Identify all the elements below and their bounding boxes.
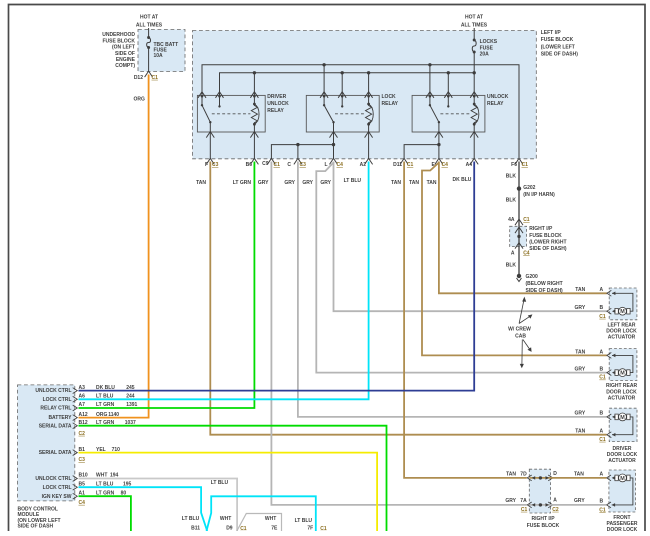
terminal B <box>607 502 611 508</box>
svg-text:UNLOCK: UNLOCK <box>487 94 509 100</box>
svg-text:GRY: GRY <box>284 180 295 186</box>
svg-text:BLK: BLK <box>506 263 517 269</box>
mechanical link dashed <box>335 113 365 115</box>
wire YEL B1 serial data <box>79 453 378 531</box>
junction bus1 / lock relay T1 <box>322 63 325 66</box>
svg-text:C4: C4 <box>442 162 449 168</box>
wire bus1 drop to lock relay T1 <box>323 65 325 96</box>
svg-text:F6: F6 <box>511 162 517 168</box>
terminal B <box>607 432 611 438</box>
svg-text:(LOWER LEFT: (LOWER LEFT <box>541 44 575 50</box>
svg-text:LOCKS: LOCKS <box>480 39 498 45</box>
svg-text:TAN: TAN <box>409 180 419 186</box>
svg-text:CAB: CAB <box>515 333 526 339</box>
relay coil winding <box>253 96 255 104</box>
junction GRY <box>539 503 542 506</box>
wire hot feed into underhood fuse block <box>148 28 150 38</box>
svg-text:C1: C1 <box>320 526 327 531</box>
svg-text:C2: C2 <box>552 507 559 513</box>
junction bus1 / unlock relay T1 <box>428 63 431 66</box>
svg-text:SIDE OF DASH): SIDE OF DASH) <box>529 246 567 252</box>
wire fuse output to bus2 junction and unlock relay coil <box>473 52 475 95</box>
wire hot feed into left I/P fuse block <box>473 28 475 40</box>
svg-text:(BELOW RIGHT: (BELOW RIGHT <box>526 281 563 287</box>
internal wire to motor far side <box>612 293 633 311</box>
internal wire to motor far side <box>612 478 633 505</box>
svg-text:TAN: TAN <box>391 180 401 186</box>
terminal big box exit at x=474.2 <box>470 158 478 164</box>
svg-text:D9: D9 <box>226 525 233 531</box>
svg-text:C1: C1 <box>599 314 606 320</box>
wire TAN E exit to left rear actuator A <box>439 162 607 294</box>
svg-text:A: A <box>600 429 604 435</box>
svg-text:FUSE BLOCK: FUSE BLOCK <box>103 38 136 44</box>
wire TAN fuse block to front passenger A <box>551 477 607 479</box>
svg-text:A: A <box>600 287 604 293</box>
svg-text:C1: C1 <box>599 437 606 443</box>
svg-text:D12: D12 <box>134 75 143 81</box>
terminal relay switch out <box>206 132 214 138</box>
wire lock relay switch out down <box>333 132 335 159</box>
svg-text:LOCK: LOCK <box>382 94 397 100</box>
svg-text:FUSE BLOCK: FUSE BLOCK <box>529 233 562 239</box>
junction bus2 / driver unlock relay coil <box>253 71 256 74</box>
svg-text:DRIVER: DRIVER <box>267 94 286 100</box>
wire bus1 ground bus across relays <box>202 65 519 159</box>
svg-text:TAN: TAN <box>575 349 585 355</box>
wire GRY L exit to left rear actuator B <box>334 162 607 312</box>
svg-text:TAN: TAN <box>574 471 584 477</box>
svg-text:C1: C1 <box>599 507 606 513</box>
svg-text:RELAY: RELAY <box>267 108 284 114</box>
wire lock relay coil out to A2 exit <box>368 132 370 159</box>
svg-text:LT GRN: LT GRN <box>96 402 115 408</box>
internal wire to motor far side <box>612 417 633 435</box>
svg-text:SIDE OF DASH: SIDE OF DASH <box>18 524 54 530</box>
front passenger actuator box <box>609 470 636 512</box>
svg-text:C1: C1 <box>240 526 247 531</box>
svg-text:A: A <box>511 250 515 256</box>
svg-text:GRY: GRY <box>320 180 331 186</box>
wire bus2 drop to driver unlock relay coil <box>253 73 255 96</box>
junction bus2 / lock relay coil <box>367 71 370 74</box>
wire GRY fuse block to front passenger B <box>551 504 607 506</box>
svg-text:LT BLU: LT BLU <box>96 394 114 400</box>
internal wire to motor near side <box>612 371 615 375</box>
right I/P fuse block small box <box>510 226 527 246</box>
svg-text:W/ CREW: W/ CREW <box>508 327 531 333</box>
terminal D12 C1 at underhood fuse block <box>145 71 153 77</box>
svg-text:F: F <box>205 162 208 168</box>
junction lock relay out fanout <box>332 143 335 146</box>
switch common stub <box>201 96 203 105</box>
svg-text:DK BLU: DK BLU <box>96 385 115 391</box>
wire TAN E exit split to right rear actuator A <box>422 163 607 356</box>
svg-text:ALL TIMES: ALL TIMES <box>136 22 163 28</box>
svg-text:M: M <box>620 371 625 377</box>
arrow to right rear TAN wire <box>523 340 530 350</box>
svg-text:7A: 7A <box>520 498 527 504</box>
wire GRY C9 to right I/P fuse block 7A <box>271 162 526 505</box>
right I/P fuse block bottom box <box>529 469 550 513</box>
svg-text:ACTUATOR: ACTUATOR <box>608 395 636 401</box>
switch NO contact stub <box>447 96 449 106</box>
internal wire to motor near side <box>612 476 615 480</box>
switch NO contact stub <box>219 96 221 106</box>
svg-text:(ON LEFT: (ON LEFT <box>112 45 135 51</box>
terminal relay coil top <box>365 92 373 98</box>
relay box LOCK <box>306 95 379 132</box>
internal wire to motor far side <box>612 355 633 372</box>
svg-text:UNDERHOOD: UNDERHOOD <box>102 32 135 38</box>
wire LT BLU branch to front passenger 7F <box>207 496 316 531</box>
terminal relay T1 <box>426 92 434 98</box>
svg-text:BATTERY: BATTERY <box>48 415 72 421</box>
wire bus2 drop to lock relay T2 <box>341 73 343 96</box>
junction bus2 / unlock relay T2 <box>447 71 450 74</box>
svg-text:C3: C3 <box>79 457 86 463</box>
svg-text:245: 245 <box>126 385 135 391</box>
wire BLK G202 to right I/P fuse block <box>518 189 520 227</box>
wire WHT B10 unlock control <box>79 479 238 532</box>
junction fuse output / bus2 <box>473 71 476 74</box>
body control module box <box>18 385 75 501</box>
svg-text:BLK: BLK <box>506 198 517 204</box>
wire GRY C exit to driver door lock actuator B <box>298 162 607 417</box>
terminal inside bottom <box>515 243 523 249</box>
terminal big box exit at x=297.9 <box>294 158 302 164</box>
svg-text:D11: D11 <box>393 162 402 168</box>
wire TAN D11 to right I/P fuse block 7D <box>404 162 527 478</box>
terminal B <box>607 308 611 314</box>
svg-text:B: B <box>600 367 604 373</box>
wire LT GRN relay control to BCM A7 <box>79 162 255 409</box>
arrow right inside <box>546 476 549 480</box>
ground G200 symbol <box>517 274 521 278</box>
terminal big box exit at x=368.6 <box>365 158 373 164</box>
svg-text:GRY: GRY <box>575 411 586 417</box>
svg-text:SERIAL DATA: SERIAL DATA <box>39 423 72 429</box>
svg-text:C1: C1 <box>407 162 414 168</box>
svg-text:A12: A12 <box>79 412 88 418</box>
terminal relay T1 <box>320 92 328 98</box>
svg-text:ORG: ORG <box>134 97 146 103</box>
svg-text:7D: 7D <box>520 471 527 477</box>
wire TAN driver lock actuator feed (F C3) <box>210 162 606 435</box>
terminal relay coil top <box>470 92 478 98</box>
svg-text:M: M <box>620 309 625 315</box>
svg-text:7E: 7E <box>271 525 278 531</box>
svg-text:BLK: BLK <box>506 174 517 180</box>
svg-text:A: A <box>553 498 557 504</box>
relay coil winding <box>368 96 370 104</box>
svg-text:LT BLU: LT BLU <box>211 480 229 486</box>
arrow to right rear GRY wire <box>521 340 523 365</box>
right rear actuator box <box>609 349 637 381</box>
arrow right inside <box>546 503 549 507</box>
svg-text:1140: 1140 <box>108 412 119 418</box>
svg-text:TAN: TAN <box>196 180 206 186</box>
svg-text:HOT AT: HOT AT <box>140 14 158 20</box>
wire TAN through fuse block <box>529 477 550 479</box>
terminal relay coil top <box>250 92 258 98</box>
svg-text:G202: G202 <box>523 185 535 191</box>
wire bus2 fused feed across relays <box>220 73 475 96</box>
svg-text:GRY: GRY <box>575 367 586 373</box>
svg-text:B: B <box>600 411 604 417</box>
wire driver unlock relay coil out to B6 exit <box>253 132 255 159</box>
terminal big box exit at x=254.4 <box>250 158 258 164</box>
svg-text:ACTUATOR: ACTUATOR <box>608 458 636 464</box>
svg-text:LEFT REAR: LEFT REAR <box>607 322 635 328</box>
svg-text:RELAY: RELAY <box>487 101 504 107</box>
junction TAN <box>539 476 542 479</box>
svg-text:244: 244 <box>126 394 135 400</box>
wire ORG from fuse block to BCM battery pin <box>79 75 149 418</box>
terminal B <box>607 370 611 376</box>
terminal relay switch out <box>435 132 443 138</box>
svg-text:SIDE OF DASH): SIDE OF DASH) <box>541 52 579 58</box>
wire GRY L exit split to right rear actuator B <box>316 163 607 373</box>
svg-text:A3: A3 <box>79 385 86 391</box>
svg-text:UNLOCK CTRL: UNLOCK CTRL <box>35 476 71 482</box>
svg-text:A: A <box>600 349 604 355</box>
terminal big box exit at x=333.5 <box>330 158 338 164</box>
svg-text:IGN KEY SW: IGN KEY SW <box>42 494 72 500</box>
motor symbol M <box>615 370 618 376</box>
switch blade <box>202 105 210 122</box>
wire fuse to block exit <box>148 48 150 72</box>
svg-text:C1: C1 <box>523 217 530 223</box>
wire BLK F6 to G202 <box>518 162 520 189</box>
inline connector C1 body (cut off at page bottom) <box>237 514 282 532</box>
svg-text:DOOR LOCK: DOOR LOCK <box>607 452 638 458</box>
svg-text:SERIAL DATA: SERIAL DATA <box>39 450 72 456</box>
svg-text:TAN: TAN <box>575 429 585 435</box>
svg-text:LEFT I/P: LEFT I/P <box>541 30 562 36</box>
junction C exit drop <box>296 143 299 146</box>
svg-text:D: D <box>553 471 557 477</box>
svg-text:RIGHT REAR: RIGHT REAR <box>606 383 638 389</box>
wire LT BLU lock control A2 to BCM A6 <box>79 162 369 400</box>
underhood fuse block box <box>138 30 185 72</box>
svg-text:LOCK CTRL: LOCK CTRL <box>43 397 72 403</box>
wire LT GRN B12 serial data <box>79 426 387 531</box>
wire fanout to C9 and C exits <box>271 145 333 159</box>
wire unlock relay coil out to A4 exit <box>473 132 475 159</box>
svg-text:M: M <box>620 476 625 482</box>
svg-text:UNLOCK: UNLOCK <box>267 101 289 107</box>
switch blade <box>430 105 439 122</box>
svg-text:RIGHT I/P: RIGHT I/P <box>531 516 555 522</box>
terminal big box exit at x=271.4 <box>267 158 275 164</box>
svg-text:7F: 7F <box>307 525 313 531</box>
svg-text:GRY: GRY <box>302 180 313 186</box>
svg-text:C4: C4 <box>337 162 344 168</box>
svg-text:DRIVER: DRIVER <box>613 446 632 452</box>
svg-text:C1: C1 <box>274 162 281 168</box>
svg-text:TAN: TAN <box>575 287 585 293</box>
svg-text:A7: A7 <box>79 402 86 408</box>
junction unlock relay out fanout <box>437 143 440 146</box>
svg-text:RELAY: RELAY <box>382 101 399 107</box>
terminal relay T1 <box>198 92 206 98</box>
wire DK BLU unlock A4 to BCM A3 <box>79 162 475 391</box>
terminal A right <box>548 502 553 508</box>
svg-text:DOOR LOCK: DOOR LOCK <box>607 527 638 531</box>
wire driver unlock relay switch out to F exit <box>209 132 211 159</box>
fuse LOCKS FUSE 20A <box>473 39 476 42</box>
svg-text:FUSE BLOCK: FUSE BLOCK <box>541 37 574 43</box>
svg-text:B: B <box>600 499 604 505</box>
terminal into right I/P fuse block <box>515 219 523 225</box>
internal wire to motor near side <box>612 415 615 419</box>
terminal inside top <box>515 227 523 233</box>
svg-text:G200: G200 <box>526 274 538 280</box>
relay box DRIVER <box>197 95 265 132</box>
svg-text:M: M <box>620 415 625 421</box>
svg-text:LT GRN: LT GRN <box>233 180 252 186</box>
svg-text:C1: C1 <box>521 507 528 513</box>
arrow to left rear GRY wire <box>519 316 530 324</box>
svg-text:SIDE OF: SIDE OF <box>115 51 135 57</box>
svg-text:C3: C3 <box>300 162 307 168</box>
svg-text:FRONT: FRONT <box>613 515 630 521</box>
relay coil winding <box>473 96 475 104</box>
svg-text:ALL TIMES: ALL TIMES <box>461 22 488 28</box>
svg-text:A: A <box>600 472 604 478</box>
svg-text:UNLOCK CTRL: UNLOCK CTRL <box>35 388 71 394</box>
svg-text:PASSENGER: PASSENGER <box>606 521 637 527</box>
svg-text:B6: B6 <box>246 162 253 168</box>
internal wire to motor near side <box>612 309 615 313</box>
switch common stub <box>323 96 325 105</box>
terminal 7A left <box>527 502 531 508</box>
svg-text:LT BLU: LT BLU <box>295 518 313 524</box>
svg-text:GRY: GRY <box>575 305 586 311</box>
svg-text:ORG: ORG <box>96 412 108 418</box>
wire fanout to D11 exit <box>404 145 439 159</box>
terminal 7D left <box>527 475 531 481</box>
left rear actuator box <box>609 288 637 320</box>
wire bus2 drop to unlock relay T2 <box>447 73 449 96</box>
svg-text:LT BLU: LT BLU <box>182 516 200 522</box>
wire LT BLU B5 lock control to B11 <box>79 487 208 531</box>
left I/P fuse block box <box>193 31 537 159</box>
svg-text:LOCK CTRL: LOCK CTRL <box>43 485 72 491</box>
svg-text:WHT: WHT <box>220 516 231 522</box>
svg-text:C2: C2 <box>79 431 86 437</box>
mechanical link dashed <box>212 113 251 115</box>
motor symbol M <box>615 414 618 420</box>
arrow to left rear TAN wire <box>519 301 524 324</box>
wire LT GRN A1 ignition key switch <box>79 496 131 531</box>
fuse TBC BATT FUSE 10A <box>147 36 150 39</box>
terminal relay coil out <box>250 132 258 138</box>
switch blade <box>324 105 333 122</box>
svg-text:TAN: TAN <box>427 180 437 186</box>
svg-text:B11: B11 <box>191 525 200 531</box>
switch common stub <box>429 96 431 105</box>
relay box UNLOCK <box>412 95 485 132</box>
svg-text:C4: C4 <box>79 500 86 506</box>
ground splice G202 <box>517 186 521 190</box>
terminal big box exit at x=438.9 <box>435 158 443 164</box>
driver actuator box <box>609 408 637 441</box>
svg-text:DK BLU: DK BLU <box>453 177 472 183</box>
svg-text:A4: A4 <box>466 162 473 168</box>
svg-text:20A: 20A <box>480 52 490 58</box>
wire bus2 drop to lock relay coil <box>368 73 370 96</box>
svg-text:C1: C1 <box>152 75 159 81</box>
svg-text:HOT AT: HOT AT <box>465 14 483 20</box>
svg-text:FUSE BLOCK: FUSE BLOCK <box>527 523 560 529</box>
svg-text:SIDE OF DASH): SIDE OF DASH) <box>526 288 564 294</box>
terminal A <box>607 475 611 481</box>
terminal big box exit at x=519 <box>515 158 523 164</box>
terminal A <box>607 353 611 359</box>
svg-text:GRY: GRY <box>258 180 269 186</box>
arrow left inside <box>532 503 535 507</box>
svg-text:C4: C4 <box>523 250 530 256</box>
wire BLK to ground G200 <box>518 247 520 276</box>
svg-text:A6: A6 <box>79 394 86 400</box>
svg-text:RIGHT I/P: RIGHT I/P <box>529 226 553 232</box>
wire GRY through fuse block <box>529 504 550 506</box>
junction inside right I/P fuse block <box>517 235 520 238</box>
svg-text:C9: C9 <box>262 161 269 167</box>
wire drop to C exit <box>297 145 299 159</box>
svg-text:1391: 1391 <box>126 402 137 408</box>
terminal A <box>607 414 611 420</box>
svg-text:FUSE: FUSE <box>480 46 494 52</box>
svg-text:L: L <box>324 162 327 168</box>
wire bus1 drop to unlock relay T1 <box>429 65 431 96</box>
terminal big box exit at x=210.3 <box>206 158 214 164</box>
motor symbol M <box>615 308 618 314</box>
junction bus2 / lock relay T2 <box>341 71 344 74</box>
svg-text:A2: A2 <box>360 162 367 168</box>
svg-text:TAN: TAN <box>506 471 516 477</box>
svg-text:10A: 10A <box>154 53 164 59</box>
svg-text:ENGINE: ENGINE <box>116 57 136 63</box>
svg-text:GRY: GRY <box>574 498 585 504</box>
terminal relay coil out <box>470 132 478 138</box>
switch output to bottom <box>438 122 440 132</box>
terminal relay switch out <box>330 132 338 138</box>
svg-text:COMPT): COMPT) <box>115 63 135 69</box>
svg-text:C: C <box>287 162 291 168</box>
svg-text:ACTUATOR: ACTUATOR <box>608 334 636 340</box>
wire through right I/P fuse block <box>518 226 520 246</box>
arrow left inside <box>532 476 535 480</box>
svg-text:(LOWER RIGHT: (LOWER RIGHT <box>529 239 566 245</box>
terminal A <box>607 290 611 296</box>
svg-text:B: B <box>600 305 604 311</box>
svg-text:C3: C3 <box>212 162 219 168</box>
svg-text:GRY: GRY <box>505 498 516 504</box>
svg-text:RELAY CTRL: RELAY CTRL <box>40 406 71 412</box>
svg-text:C1: C1 <box>599 375 606 381</box>
mechanical link dashed <box>440 113 470 115</box>
svg-text:C1: C1 <box>522 162 529 168</box>
terminal D right <box>548 475 553 481</box>
terminal relay T2 <box>444 92 452 98</box>
switch output to bottom <box>333 122 335 132</box>
switch output to bottom <box>209 122 211 132</box>
switch NO contact stub <box>341 96 343 106</box>
terminal relay T2 <box>338 92 346 98</box>
